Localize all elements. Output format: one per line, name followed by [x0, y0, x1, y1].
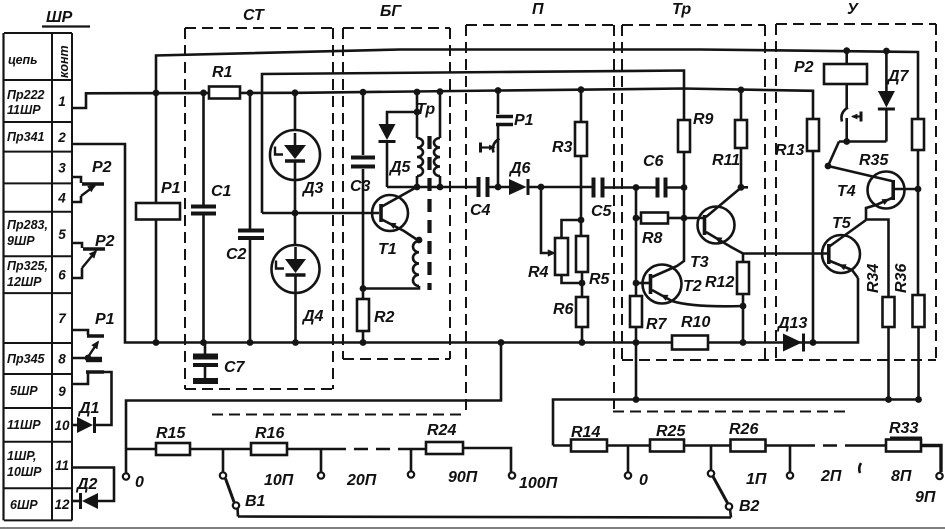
potentiometer R4: [555, 238, 568, 275]
svg-text:T2: T2: [683, 278, 702, 295]
svg-text:0: 0: [135, 474, 144, 491]
junction dots BG block: [292, 210, 299, 217]
wire to R33: [858, 444, 886, 447]
wire transformer secondary output to C4: [417, 186, 477, 189]
wire R15 to R16: [190, 448, 251, 451]
svg-text:P1: P1: [161, 180, 181, 197]
svg-text:СТ: СТ: [243, 7, 265, 24]
capacitor C2: [249, 93, 252, 229]
svg-text:C1: C1: [211, 183, 232, 200]
svg-text:R35: R35: [859, 152, 889, 169]
svg-text:Тр: Тр: [672, 1, 691, 18]
resistor R33: [886, 440, 921, 452]
resistor R11: [740, 90, 743, 120]
wire bottom common bus y=342: [72, 144, 858, 343]
svg-text:T3: T3: [690, 254, 709, 271]
resistor R15: [156, 443, 190, 455]
wire C5 node down to T2 base: [635, 188, 638, 284]
svg-text:6ШР: 6ШР: [10, 498, 38, 512]
diode D7: [885, 51, 888, 91]
svg-text:ШР: ШР: [46, 9, 73, 26]
resistor R26: [731, 440, 766, 452]
resistor R3: [580, 90, 583, 122]
blocks Tr and U dashed bottom border: [622, 359, 936, 361]
block CT dashed border: [185, 27, 333, 29]
scan edge artifact bottom: [0, 527, 945, 529]
svg-text:Д7: Д7: [886, 68, 910, 85]
wire switch common B1 to B2: [238, 517, 731, 518]
svg-text:Д4: Д4: [301, 308, 324, 325]
switch B1: [222, 449, 225, 472]
terminal 20P: [410, 449, 413, 471]
wire lower-right bus to R14: [553, 400, 920, 446]
relay contact pins 8-9: [72, 357, 102, 360]
svg-text:9ШР: 9ШР: [7, 234, 35, 248]
dashed divider above left resistor chain: [212, 414, 464, 416]
svg-text:10: 10: [54, 418, 70, 433]
svg-text:5: 5: [58, 227, 66, 242]
zener D4 in circle: [294, 180, 297, 245]
junction dots lower bus: [633, 396, 640, 403]
svg-text:R4: R4: [528, 264, 549, 281]
junction dots U block: [843, 138, 850, 145]
svg-text:В2: В2: [739, 498, 760, 515]
svg-text:100П: 100П: [519, 475, 558, 492]
svg-text:R16: R16: [255, 425, 284, 442]
svg-text:90П: 90П: [448, 469, 478, 486]
wire T2 emitter node down to bus: [742, 306, 745, 343]
svg-text:C5: C5: [591, 203, 613, 220]
svg-text:конт: конт: [57, 45, 71, 78]
dashed omitted chain section right: [801, 444, 858, 447]
transformer Tr windings: [416, 92, 419, 138]
terminal 0 right: [627, 446, 630, 473]
wire tap to R24: [408, 448, 426, 451]
wire R24 to 100P terminal: [463, 448, 511, 472]
resistor R9: [678, 120, 690, 152]
svg-text:R11: R11: [712, 152, 740, 169]
dashed divider above right resistor chain: [613, 411, 846, 413]
svg-text:R5: R5: [589, 271, 611, 288]
svg-text:11ШР: 11ШР: [7, 418, 41, 432]
relay coil P1: [155, 93, 158, 204]
svg-text:12ШР: 12ШР: [7, 275, 42, 289]
wire R4 bottom to R5 bottom: [562, 275, 583, 283]
svg-text:T5: T5: [832, 215, 852, 232]
wire R26 to 1P tap: [766, 444, 802, 447]
svg-text:3: 3: [58, 161, 66, 176]
svg-text:R13: R13: [775, 142, 804, 159]
wire stabilized rail from D3/D4 midpoint to R9: [262, 71, 684, 214]
resistor R16: [251, 443, 287, 455]
terminal 9P: [936, 473, 942, 479]
resistor R25: [650, 440, 684, 452]
relay contact P1 pins 7-8: [72, 330, 88, 335]
diode D1 pin10 to pin8 contact: [72, 424, 77, 427]
svg-text:P1: P1: [514, 112, 534, 129]
svg-text:T4: T4: [837, 183, 856, 200]
diode D5: [387, 112, 417, 124]
svg-text:цепь: цепь: [8, 53, 38, 67]
block P dashed border: [466, 24, 614, 26]
diode D2 pins 11-12: [72, 468, 114, 502]
svg-text:12: 12: [54, 497, 70, 512]
svg-text:2: 2: [57, 130, 66, 145]
svg-text:R6: R6: [553, 301, 574, 318]
svg-text:0: 0: [639, 472, 648, 489]
transistor T3: [698, 207, 735, 244]
svg-text:9П: 9П: [915, 489, 936, 506]
diode D6: [509, 179, 527, 195]
wire lower-left bus linking 0-tap to common bus: [126, 343, 501, 450]
wire T4 emitter node to R34: [866, 220, 889, 298]
svg-text:R2: R2: [374, 309, 395, 326]
svg-text:C4: C4: [470, 202, 491, 219]
wire P2 D7 node to T4 collector: [839, 140, 886, 143]
svg-text:2П: 2П: [820, 468, 842, 485]
wire R16 to tap: [287, 448, 332, 451]
svg-text:1: 1: [58, 94, 66, 109]
svg-text:P2: P2: [92, 159, 112, 176]
svg-text:9: 9: [58, 384, 66, 399]
capacitor C5: [592, 178, 596, 198]
resistor R14: [553, 444, 571, 447]
svg-text:Д6: Д6: [508, 160, 531, 177]
transistor T4: [868, 172, 905, 209]
wire top rail from pin1 node to R35: [156, 50, 918, 120]
svg-text:БГ: БГ: [380, 3, 402, 20]
svg-text:11ШР: 11ШР: [7, 103, 41, 117]
junction dots bottom bus: [153, 339, 160, 346]
dashed omitted chain section left: [332, 448, 408, 451]
relay contact of P2: [841, 108, 848, 122]
svg-text:Пр325,: Пр325,: [7, 259, 48, 273]
resistor R5: [576, 236, 588, 272]
node T3 collector stub: [741, 186, 748, 189]
svg-text:R26: R26: [729, 421, 758, 438]
svg-text:R8: R8: [642, 230, 663, 247]
wire R8 node to T3 base: [684, 217, 703, 220]
svg-text:C6: C6: [643, 153, 664, 170]
svg-text:R7: R7: [646, 316, 668, 333]
resistor R8: [636, 217, 641, 220]
svg-text:Д2: Д2: [75, 476, 98, 493]
svg-text:У: У: [847, 1, 859, 18]
junction dots P block: [495, 184, 502, 191]
svg-text:П: П: [532, 1, 544, 18]
wire R33 to 9P terminal: [921, 446, 941, 473]
svg-text:4: 4: [57, 191, 66, 206]
terminal 1P: [789, 446, 792, 473]
svg-text:10П: 10П: [264, 472, 294, 489]
relay coil P2: [845, 51, 848, 64]
svg-text:5ШР: 5ШР: [10, 384, 38, 398]
wire R25 to B2 tap: [684, 444, 731, 447]
svg-text:8П: 8П: [891, 468, 912, 485]
svg-text:6: 6: [58, 268, 66, 283]
svg-text:P2: P2: [794, 59, 814, 76]
capacitor C6: [656, 178, 660, 198]
capacitor C4: [477, 177, 481, 197]
svg-text:Пр222: Пр222: [7, 88, 45, 102]
terminal 0 left: [125, 449, 128, 473]
svg-text:R15: R15: [156, 425, 186, 442]
svg-text:R10: R10: [681, 314, 710, 331]
svg-text:C3: C3: [350, 178, 371, 195]
svg-text:P2: P2: [95, 233, 115, 250]
block BG dashed border: [343, 27, 450, 29]
svg-text:R34: R34: [865, 264, 882, 293]
transistor T2: [643, 265, 682, 304]
resistor R1: [209, 87, 240, 99]
svg-text:C7: C7: [224, 359, 246, 376]
svg-text:10ШР: 10ШР: [7, 465, 42, 479]
svg-text:P1: P1: [95, 311, 115, 328]
resistor R34: [883, 297, 895, 327]
transistor T1: [372, 195, 408, 231]
wire R14 to R25: [607, 444, 650, 447]
block U dashed border: [776, 23, 936, 25]
junction dots Tr block: [633, 184, 640, 191]
svg-text:Д1: Д1: [77, 400, 100, 417]
svg-text:Д5: Д5: [388, 159, 412, 176]
svg-text:C2: C2: [226, 246, 247, 263]
omitted-section tick: [859, 463, 861, 473]
relay contact P2 pins 5-6: [72, 243, 82, 248]
transistor T5: [822, 235, 860, 273]
junction dots main rail: [153, 90, 160, 97]
transformer core: [427, 136, 431, 290]
node pin8 junction: [85, 355, 92, 362]
terminal 10P: [320, 449, 323, 472]
resistor R24: [426, 442, 463, 454]
resistor R36: [913, 295, 925, 327]
svg-text:8: 8: [58, 352, 66, 367]
wire D6 node down to R4 wiper: [541, 187, 552, 253]
resistor R2: [362, 289, 365, 300]
svg-text:Пр341: Пр341: [7, 130, 45, 144]
svg-text:R1: R1: [212, 64, 233, 81]
resistor R10 in bus: [672, 336, 708, 350]
svg-text:20П: 20П: [346, 472, 377, 489]
svg-text:Пр345: Пр345: [7, 352, 46, 366]
switch B2: [710, 446, 713, 471]
relay contact P2 pins 3-4: [72, 177, 81, 183]
svg-text:T1: T1: [378, 241, 397, 258]
svg-text:R36: R36: [893, 264, 910, 293]
svg-text:R25: R25: [656, 423, 686, 440]
svg-text:R9: R9: [693, 111, 714, 128]
svg-text:1ШР,: 1ШР,: [7, 449, 36, 463]
svg-text:Д13: Д13: [776, 315, 807, 332]
capacitor C3: [362, 92, 365, 155]
resistor R35: [912, 119, 924, 150]
connector table frame: [4, 32, 72, 34]
capacitor C1: [202, 93, 205, 207]
resistor R13: [807, 119, 819, 151]
wire left chain line: [126, 448, 156, 451]
svg-text:11: 11: [55, 458, 69, 473]
svg-text:R3: R3: [552, 139, 573, 156]
block Tr dashed border: [622, 24, 765, 26]
resistor R12: [742, 254, 745, 263]
svg-text:Пр283,: Пр283,: [7, 218, 48, 232]
svg-text:1П: 1П: [746, 471, 767, 488]
wire main supply rail y=92 from connector pin 1: [72, 89, 813, 120]
svg-text:R14: R14: [571, 424, 600, 441]
svg-text:В1: В1: [245, 493, 266, 510]
svg-text:R33: R33: [889, 420, 918, 437]
terminal 100P: [509, 472, 515, 478]
capacitor C7 electrolytic: [204, 343, 207, 355]
zener D3 in circle: [294, 93, 297, 130]
svg-text:R12: R12: [705, 274, 734, 291]
junction dots top rail: [843, 47, 850, 54]
relay contact P1 in P block: [497, 91, 500, 115]
svg-text:R24: R24: [427, 422, 456, 439]
resistor R6: [581, 283, 584, 297]
diode D13: [783, 334, 802, 352]
svg-text:Д3: Д3: [301, 180, 324, 197]
resistor R7: [635, 283, 638, 296]
